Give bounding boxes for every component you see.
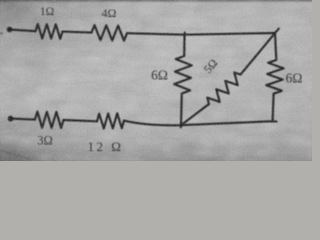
resistor R5 6 ohm right vertical with connecting stubs bbox=[266, 33, 283, 121]
wire: 1 ohm to 4 ohm bbox=[63, 31, 92, 34]
terminal dot (top input) bbox=[7, 27, 13, 33]
resistor R6 3 ohm bbox=[35, 112, 64, 128]
wire: 3 ohm to 12 ohm bbox=[64, 120, 98, 121]
wire: 4 ohm to node A and top-right corner bbox=[127, 33, 275, 35]
wire: top terminal to resistor 1 ohm bbox=[10, 30, 36, 32]
resistor R2 4 ohm bbox=[92, 25, 128, 41]
resistor R3 6 ohm left vertical with connecting stubs bbox=[174, 33, 192, 128]
resistor R7 12 ohm bbox=[97, 113, 124, 128]
terminal dot (bottom input) bbox=[8, 116, 14, 122]
resistor R1 1 ohm bbox=[36, 24, 63, 39]
wire: 12 ohm to node B and bottom-right corner bbox=[124, 121, 277, 126]
resistor R4 5 ohm diagonal with connecting stubs bbox=[181, 29, 279, 126]
wire: bottom terminal to resistor 3 ohm bbox=[11, 119, 35, 120]
